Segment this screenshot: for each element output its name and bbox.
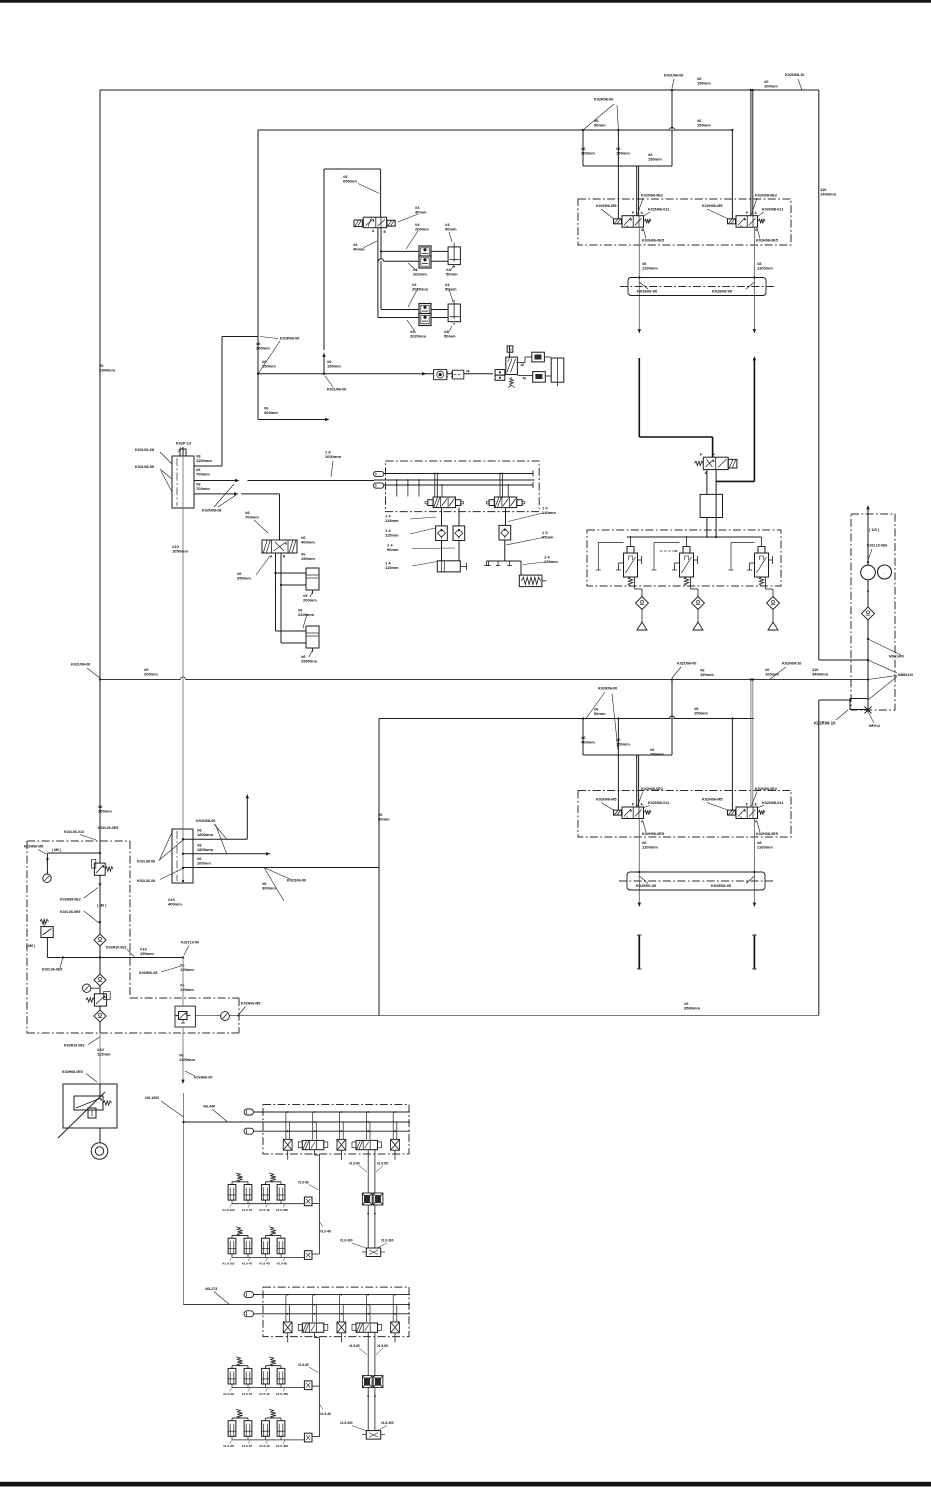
svg-text:K02H06-M5: K02H06-M5 [702, 204, 722, 208]
svg-text:K02U06-00: K02U06-00 [71, 663, 90, 667]
svg-text:1800mm: 1800mm [197, 832, 213, 837]
svg-text:#6: #6 [466, 370, 470, 374]
svg-text:K02N08-00: K02N08-00 [196, 819, 215, 823]
svg-text:1150mm: 1150mm [196, 458, 212, 463]
svg-text:#1.5-70: #1.5-70 [242, 1392, 253, 1396]
svg-text:K02H06-M5: K02H06-M5 [241, 1002, 260, 1006]
svg-text:K02R10-0E1: K02R10-0E1 [64, 1044, 85, 1048]
svg-text:1050mm: 1050mm [172, 549, 188, 554]
svg-text:#1.5-300: #1.5-300 [340, 1421, 353, 1425]
svg-text:2500mm: 2500mm [301, 659, 317, 664]
svg-text:#1.5-46: #1.5-46 [259, 1444, 270, 1448]
svg-text:#1.0-46: #1.0-46 [320, 1230, 331, 1234]
svg-text:#1.5-70: #1.5-70 [242, 1444, 253, 1448]
svg-text:#1.0-60: #1.0-60 [277, 1262, 288, 1266]
svg-text:#1.0-60: #1.0-60 [349, 1162, 360, 1166]
svg-text:K02N06-0E2: K02N06-0E2 [641, 194, 663, 198]
svg-text:#6L273: #6L273 [205, 1287, 217, 1291]
svg-text:K02U06-00: K02U06-00 [664, 74, 683, 78]
svg-text:2020mm: 2020mm [410, 334, 426, 339]
svg-text:K02N06-011: K02N06-011 [648, 801, 669, 805]
svg-text:#1.0-70: #1.0-70 [242, 1262, 253, 1266]
svg-text:300mm: 300mm [581, 151, 595, 156]
svg-text:1800mm: 1800mm [197, 847, 213, 852]
svg-text:90mm: 90mm [387, 547, 399, 552]
svg-text:K02L08-0E5: K02L08-0E5 [60, 910, 80, 914]
svg-text:300mm: 300mm [262, 886, 276, 891]
svg-text:K02L06-08: K02L06-08 [135, 448, 154, 452]
svg-text:195mm: 195mm [544, 559, 558, 564]
svg-text:#1.5-60: #1.5-60 [349, 1344, 360, 1348]
svg-text:#1.5-38: #1.5-38 [223, 1444, 234, 1448]
svg-text:#1.5-46: #1.5-46 [259, 1392, 270, 1396]
svg-text:200mm: 200mm [415, 227, 429, 232]
svg-text:150mm: 150mm [648, 157, 662, 162]
svg-text:#1.0-102: #1.0-102 [222, 1208, 234, 1212]
svg-text:150mm: 150mm [180, 967, 194, 972]
svg-text:95mm: 95mm [542, 535, 554, 540]
svg-text:K02R10-0E1: K02R10-0E1 [106, 946, 127, 950]
svg-text:K02L10-0E6: K02L10-0E6 [867, 544, 887, 548]
svg-text:1100mm: 1100mm [757, 845, 773, 850]
svg-text:#1.0-46: #1.0-46 [259, 1208, 270, 1212]
svg-text:K02L06-0E5: K02L06-0E5 [98, 826, 118, 830]
svg-text:K02T10-00: K02T10-00 [181, 941, 199, 945]
svg-text:#1.0-80: #1.0-80 [298, 1181, 309, 1185]
svg-text:2300mm: 2300mm [99, 368, 115, 373]
svg-text:1400mm: 1400mm [820, 192, 836, 197]
svg-text:#1.5-65: #1.5-65 [377, 1344, 388, 1348]
svg-text:50mm: 50mm [445, 227, 457, 232]
svg-text:150mm: 150mm [327, 364, 341, 369]
svg-text:115mm: 115mm [385, 533, 399, 538]
svg-text:#1.5-80: #1.5-80 [298, 1363, 309, 1367]
svg-text:#1.0-300: #1.0-300 [381, 1239, 394, 1243]
svg-text:K02E08-00: K02E08-00 [712, 289, 733, 294]
svg-text:200mm: 200mm [303, 598, 317, 603]
svg-text:40mm: 40mm [353, 247, 365, 252]
svg-text:K02R06-00: K02R06-00 [598, 687, 617, 691]
svg-text:K02U06-00: K02U06-00 [677, 662, 696, 666]
svg-text:#6: #6 [523, 377, 527, 381]
svg-text:200mm: 200mm [144, 672, 158, 677]
svg-text:K02L08-99: K02L08-99 [137, 860, 155, 864]
svg-text:K02H06-0E5: K02H06-0E5 [642, 832, 664, 836]
svg-text:MP014: MP014 [869, 724, 880, 728]
svg-text:#1.0-46: #1.0-46 [259, 1262, 270, 1266]
svg-text:50mm: 50mm [594, 123, 606, 128]
svg-text:K02H08-0E5: K02H08-0E5 [756, 832, 778, 836]
svg-text:K02H06-M5: K02H06-M5 [596, 204, 616, 208]
svg-text:K02N09-10: K02N09-10 [782, 662, 801, 666]
svg-text:150mm: 150mm [301, 556, 315, 561]
svg-text:( M6 ): ( M6 ) [26, 944, 36, 948]
svg-text:#1.0-300: #1.0-300 [340, 1239, 353, 1243]
svg-text:150mm: 150mm [697, 81, 711, 86]
svg-text:100mm: 100mm [764, 84, 778, 89]
svg-text:#1.5-38: #1.5-38 [223, 1392, 234, 1396]
svg-text:1000mm: 1000mm [325, 454, 341, 459]
svg-text:150mm: 150mm [700, 672, 714, 677]
svg-text:#1.5-400: #1.5-400 [276, 1444, 288, 1448]
svg-text:K02H08-0E5: K02H08-0E5 [756, 239, 778, 243]
svg-text:K02H08-0E5: K02H08-0E5 [62, 1070, 83, 1074]
svg-text:200mm: 200mm [256, 346, 270, 351]
svg-text:K02H06-M5: K02H06-M5 [702, 798, 722, 802]
svg-text:700mm: 700mm [196, 486, 210, 491]
svg-text:K02H06-0E5: K02H06-0E5 [642, 239, 664, 243]
svg-text:K02H06-08: K02H06-08 [139, 971, 157, 975]
svg-text:K02H08-0E2: K02H08-0E2 [60, 898, 81, 902]
svg-text:150mm: 150mm [616, 151, 630, 156]
svg-text:115mm: 115mm [385, 565, 399, 570]
svg-text:400mm: 400mm [168, 902, 182, 907]
svg-text:( 110 ): ( 110 ) [869, 528, 880, 532]
svg-text:K02L08-99: K02L08-99 [135, 465, 154, 469]
svg-text:50mm: 50mm [446, 272, 458, 277]
svg-text:K02E06-00: K02E06-00 [636, 883, 657, 888]
svg-text:K02N08-011: K02N08-011 [762, 208, 783, 212]
svg-text:202mm: 202mm [413, 272, 427, 277]
svg-text:K02R06-00: K02R06-00 [280, 337, 299, 341]
svg-text:K02L06-013: K02L06-013 [64, 830, 84, 834]
svg-text:K02N06-011: K02N06-011 [648, 208, 669, 212]
svg-text:K02L06-08: K02L06-08 [137, 879, 155, 883]
svg-text:K02L06-0E5: K02L06-0E5 [42, 968, 62, 972]
svg-text:50mm: 50mm [445, 287, 457, 292]
svg-text:150mm: 150mm [140, 951, 154, 956]
svg-text:( M6 ): ( M6 ) [52, 848, 62, 852]
svg-text:350mm: 350mm [237, 576, 251, 581]
svg-text:150mm: 150mm [262, 364, 276, 369]
svg-text:1100mm: 1100mm [642, 845, 658, 850]
svg-text:2020mm: 2020mm [412, 287, 428, 292]
svg-text:3400mm: 3400mm [812, 672, 828, 677]
svg-text:K02U06-00: K02U06-00 [327, 388, 346, 392]
svg-text:K02H06-M5: K02H06-M5 [24, 845, 43, 849]
svg-text:#6: #6 [521, 363, 525, 367]
svg-text:#1.5-46: #1.5-46 [320, 1412, 331, 1416]
svg-text:K02H06-M5: K02H06-M5 [596, 798, 616, 802]
svg-text:#1.5-300: #1.5-300 [381, 1421, 394, 1425]
svg-text:150mm: 150mm [650, 752, 664, 757]
svg-text:.: . [883, 570, 884, 575]
svg-text:K02P-13: K02P-13 [176, 442, 191, 446]
svg-text:150mm: 150mm [694, 711, 708, 716]
svg-text:K02N08-08: K02N08-08 [202, 509, 221, 513]
svg-text:#1.0-70: #1.0-70 [242, 1208, 253, 1212]
svg-text:K02N08-011: K02N08-011 [762, 801, 783, 805]
svg-text:400mm: 400mm [581, 740, 595, 745]
svg-text:K02N08-0E2: K02N08-0E2 [755, 194, 777, 198]
svg-text:150mm: 150mm [180, 987, 194, 992]
svg-text:K02R06-00: K02R06-00 [594, 98, 613, 102]
svg-text:350mm: 350mm [98, 809, 112, 814]
svg-text:#1.0-300: #1.0-300 [276, 1208, 288, 1212]
svg-text:100mm: 100mm [765, 672, 779, 677]
svg-text:M9A1400: M9A1400 [889, 655, 904, 659]
svg-text:50mm: 50mm [444, 334, 456, 339]
svg-text:50mm: 50mm [378, 817, 390, 822]
svg-text:115mm: 115mm [385, 518, 399, 523]
svg-text:400mm: 400mm [301, 540, 315, 545]
svg-text:700mm: 700mm [196, 472, 210, 477]
svg-text:#6L1600: #6L1600 [145, 1096, 159, 1100]
svg-text:1100mm: 1100mm [642, 266, 658, 271]
svg-text:K02N08-0E2: K02N08-0E2 [755, 787, 777, 791]
svg-text:150mm: 150mm [616, 742, 630, 747]
svg-text:K02R06-10: K02R06-10 [814, 721, 836, 726]
svg-text:40mm: 40mm [415, 210, 427, 215]
svg-text:MM61410: MM61410 [898, 673, 913, 677]
svg-text:115mm: 115mm [97, 1052, 111, 1057]
svg-text:#1.5-400: #1.5-400 [276, 1392, 288, 1396]
svg-text:K02N08-10: K02N08-10 [785, 73, 804, 77]
svg-text:150mm: 150mm [697, 123, 711, 128]
svg-text:#1.0-65: #1.0-65 [377, 1162, 388, 1166]
svg-text:K02E06-00: K02E06-00 [637, 289, 658, 294]
svg-text:#6L440: #6L440 [203, 1105, 215, 1109]
svg-text:700mm: 700mm [245, 515, 259, 520]
svg-text:100mm: 100mm [197, 861, 211, 866]
svg-text:140mm: 140mm [542, 510, 556, 515]
svg-text:K02H06-00: K02H06-00 [194, 1076, 212, 1080]
svg-text:K02N06-0E2: K02N06-0E2 [641, 787, 663, 791]
svg-text:1100mm: 1100mm [757, 266, 773, 271]
svg-text:1200mm: 1200mm [179, 1057, 195, 1062]
svg-text:650mm: 650mm [343, 179, 357, 184]
svg-text:3500mm: 3500mm [684, 1006, 700, 1011]
svg-text:50mm: 50mm [594, 711, 606, 716]
svg-text:300mm: 300mm [264, 410, 278, 415]
svg-text:K02E08-00: K02E08-00 [711, 883, 732, 888]
svg-text:#1.0-102: #1.0-102 [222, 1262, 234, 1266]
svg-text:( M6 ): ( M6 ) [97, 904, 107, 908]
